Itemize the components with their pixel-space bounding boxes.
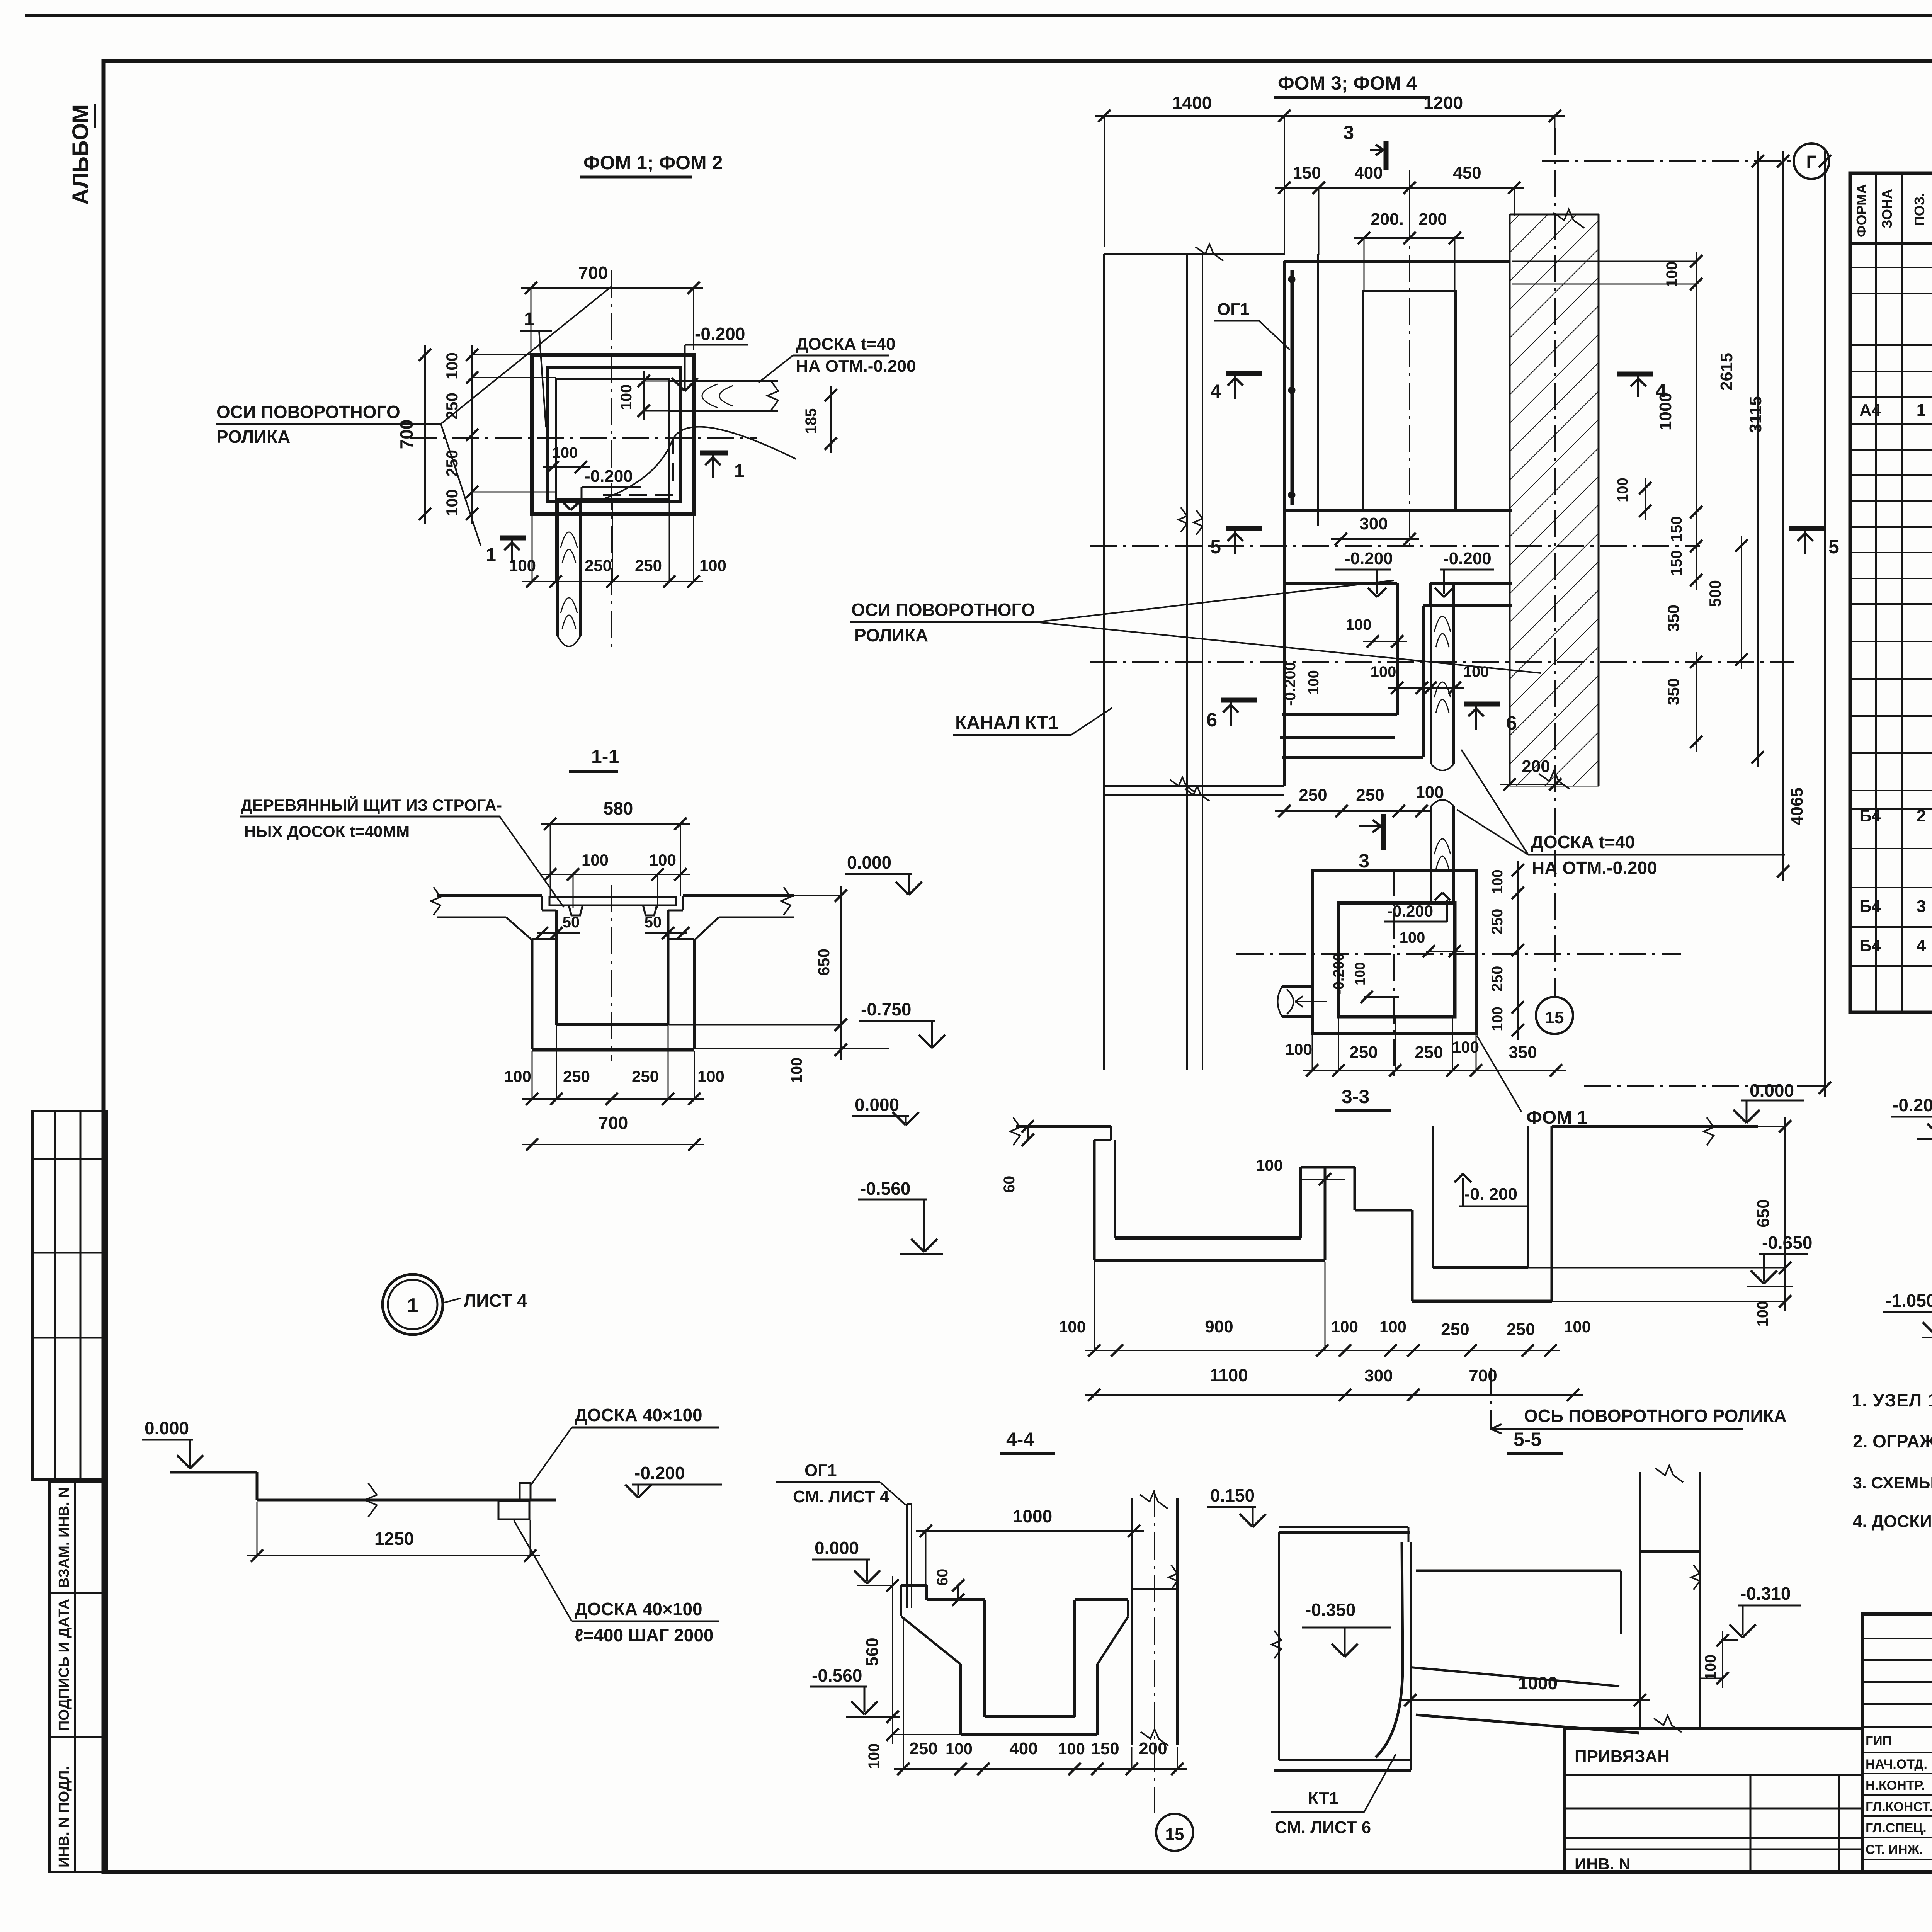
- svg-text:100: 100: [1490, 869, 1506, 894]
- svg-text:3: 3: [1359, 850, 1369, 872]
- svg-text:ПРИВЯЗАН: ПРИВЯЗАН: [1575, 1747, 1670, 1766]
- plan vertical plank upper: [1430, 583, 1432, 764]
- svg-text:ДОСКА 40×100: ДОСКА 40×100: [575, 1405, 702, 1425]
- svg-text:СТ. ИНЖ.: СТ. ИНЖ.: [1866, 1842, 1923, 1857]
- dim 2615: [1757, 151, 1759, 767]
- svg-text:ФОМ 1; ФОМ 2: ФОМ 1; ФОМ 2: [583, 152, 723, 173]
- dims 150 150 right: [1696, 502, 1697, 590]
- svg-text:2. ОГРАЖДЕНИЕ ОГ1 УЧТЕНО В: 2. ОГРАЖДЕНИЕ ОГ1 УЧТЕНО В СПЕЦИФИКАЦИИ …: [1853, 1431, 1932, 1451]
- svg-text:1000: 1000: [1518, 1673, 1558, 1693]
- svg-text:5-5: 5-5: [1514, 1429, 1541, 1450]
- svg-text:-0.560: -0.560: [812, 1665, 862, 1685]
- dims 350 350 right: [1696, 652, 1697, 752]
- svg-text:1250: 1250: [374, 1529, 414, 1549]
- svg-text:I: I: [68, 117, 93, 124]
- svg-text:100: 100: [443, 489, 461, 516]
- s55 tub: [1279, 1526, 1408, 1528]
- svg-text:50: 50: [645, 914, 662, 931]
- s11 dims 100 100: [541, 874, 690, 875]
- svg-text:ДЕРЕВЯННЫЙ ЩИТ ИЗ СТРОГА-: ДЕРЕВЯННЫЙ ЩИТ ИЗ СТРОГА-: [241, 796, 502, 814]
- svg-text:100: 100: [1285, 1040, 1312, 1058]
- channel break lines lower: [1104, 785, 1284, 787]
- svg-text:ФОРМА: ФОРМА: [1854, 184, 1869, 237]
- s44 dim 100 left: [892, 1707, 893, 1744]
- plan shield dashed outline: [672, 437, 674, 484]
- s11 bottom dims: [522, 1098, 704, 1100]
- svg-text:4: 4: [1917, 936, 1926, 955]
- section mark 1 right: [700, 451, 728, 456]
- plan step pockets: [1396, 583, 1399, 715]
- svg-text:300: 300: [1359, 514, 1388, 533]
- s11 shield strip: [549, 897, 676, 905]
- plan outer square: [532, 355, 694, 514]
- svg-text:250: 250: [563, 1067, 590, 1085]
- section marks 5: [1226, 526, 1262, 531]
- axis vertical plan: [1409, 170, 1410, 549]
- s11 dim 100 right: [840, 1015, 842, 1060]
- svg-text:100: 100: [1352, 962, 1368, 985]
- dim 300: [1331, 538, 1419, 540]
- svg-text:ГИП: ГИП: [1866, 1734, 1892, 1748]
- svg-text:100: 100: [866, 1743, 883, 1769]
- svg-text:1000: 1000: [1656, 393, 1675, 430]
- s11 dim 650 right: [840, 886, 842, 1034]
- og1 fence: [1291, 270, 1294, 505]
- line 150 inner: [1317, 254, 1319, 526]
- s33 left trench outer: [1093, 1140, 1096, 1260]
- svg-text:15: 15: [1165, 1825, 1184, 1844]
- axes horizontal mid: [1090, 545, 1700, 547]
- fom1 right dims: [1517, 861, 1519, 1040]
- svg-text:100: 100: [582, 851, 609, 869]
- svg-text:200.: 200.: [1371, 210, 1404, 229]
- svg-text:-0. 200: -0. 200: [1464, 1185, 1517, 1204]
- svg-text:150: 150: [1668, 516, 1685, 542]
- svg-text:100: 100: [618, 384, 635, 410]
- dims 250 250 100 lower: [1275, 810, 1431, 812]
- svg-text:1100: 1100: [1209, 1365, 1248, 1385]
- svg-text:150: 150: [1668, 550, 1685, 576]
- svg-text:СМ. ЛИСТ 4: СМ. ЛИСТ 4: [793, 1487, 889, 1506]
- svg-text:450: 450: [1453, 163, 1481, 182]
- svg-text:100: 100: [1058, 1740, 1085, 1758]
- svg-text:250: 250: [632, 1067, 659, 1085]
- svg-text:250: 250: [1441, 1320, 1469, 1339]
- s44 profile: [901, 1584, 927, 1587]
- dim 185: [830, 386, 832, 453]
- svg-text:250: 250: [635, 556, 662, 575]
- detail boards: [520, 1483, 531, 1500]
- svg-text:0.000: 0.000: [1750, 1080, 1794, 1100]
- svg-text:РОЛИКА: РОЛИКА: [854, 625, 928, 645]
- dim 700 top: [521, 287, 703, 289]
- detail dim 1250: [247, 1555, 540, 1556]
- svg-text:60: 60: [1001, 1176, 1018, 1193]
- dim 1000 right: [1696, 274, 1697, 522]
- svg-text:1: 1: [407, 1294, 418, 1317]
- svg-text:1: 1: [486, 545, 496, 565]
- svg-text:200: 200: [1139, 1739, 1167, 1758]
- svg-text:250: 250: [1507, 1320, 1535, 1339]
- svg-text:100: 100: [1306, 670, 1322, 694]
- svg-text:650: 650: [815, 949, 833, 976]
- svg-text:-0.200: -0.200: [1893, 1095, 1932, 1115]
- s11 dim 580: [541, 823, 690, 825]
- svg-text:-0.650: -0.650: [1762, 1233, 1812, 1253]
- svg-text:Н.КОНТР.: Н.КОНТР.: [1866, 1778, 1925, 1793]
- section marks 4: [1226, 371, 1262, 376]
- svg-text:1: 1: [734, 461, 745, 481]
- svg-text:Б4: Б4: [1859, 806, 1881, 825]
- dims left column: [471, 345, 473, 524]
- svg-text:50: 50: [563, 914, 580, 931]
- svg-text:-0.310: -0.310: [1740, 1583, 1791, 1604]
- svg-text:1: 1: [1917, 401, 1926, 420]
- svg-text:4-4: 4-4: [1006, 1429, 1034, 1450]
- svg-text:350: 350: [1509, 1043, 1537, 1062]
- plan axes: [410, 437, 757, 439]
- svg-text:3115: 3115: [1746, 396, 1765, 433]
- svg-text:2: 2: [1917, 806, 1926, 825]
- svg-text:185: 185: [803, 408, 820, 434]
- mid dims 100: [1363, 641, 1407, 642]
- svg-text:1400: 1400: [1172, 93, 1212, 113]
- svg-text:250: 250: [1349, 1043, 1378, 1062]
- dim 100 inside plan bottom: [543, 466, 590, 468]
- s44 wall right: [1131, 1498, 1133, 1745]
- dim 200 wall: [1500, 784, 1565, 785]
- svg-text:100: 100: [443, 352, 461, 379]
- svg-text:300: 300: [1364, 1366, 1393, 1385]
- svg-text:2615: 2615: [1717, 353, 1736, 391]
- svg-text:100: 100: [1256, 1156, 1283, 1174]
- svg-text:3: 3: [1343, 122, 1354, 143]
- svg-text:ОСЬ ПОВОРОТНОГО РОЛИКА: ОСЬ ПОВОРОТНОГО РОЛИКА: [1524, 1406, 1787, 1426]
- svg-text:100: 100: [699, 556, 726, 575]
- svg-text:ГЛ.КОНСТ.: ГЛ.КОНСТ.: [1866, 1799, 1932, 1814]
- svg-text:100: 100: [1059, 1318, 1086, 1336]
- svg-text:100: 100: [1452, 1038, 1479, 1056]
- plan right plank: [669, 380, 778, 382]
- s11 dim 700 bottom: [522, 1144, 704, 1145]
- dim 100 pit bottom right: [1645, 478, 1646, 520]
- svg-text:6: 6: [1506, 712, 1517, 734]
- s33 slab top: [1016, 1125, 1111, 1128]
- s11 trench walls: [555, 910, 558, 1025]
- svg-text:-0.750: -0.750: [861, 999, 911, 1019]
- svg-text:ДОСКА t=40: ДОСКА t=40: [1531, 832, 1635, 852]
- s55 wedge: [1416, 1570, 1621, 1572]
- svg-text:350: 350: [1664, 605, 1682, 632]
- spec table grid: [1850, 173, 1932, 1012]
- svg-text:ФОМ 3; ФОМ 4: ФОМ 3; ФОМ 4: [1278, 72, 1417, 94]
- svg-text:250: 250: [585, 556, 612, 575]
- svg-text:-0.200: -0.200: [1387, 902, 1433, 920]
- s55 dim 1000: [1401, 1699, 1650, 1701]
- detail profile: [170, 1471, 257, 1474]
- svg-text:150: 150: [1091, 1739, 1119, 1758]
- svg-text:А4: А4: [1859, 401, 1881, 420]
- svg-text:КАНАЛ КТ1: КАНАЛ КТ1: [955, 713, 1058, 733]
- svg-text:100: 100: [1702, 1655, 1719, 1680]
- wall hatched: [1510, 214, 1599, 786]
- sheet top edge line: [25, 14, 1932, 17]
- s11 axis: [611, 885, 612, 1061]
- s33 dim 650 right: [1784, 1117, 1786, 1277]
- svg-text:РОЛИКА: РОЛИКА: [216, 427, 290, 447]
- svg-text:100: 100: [788, 1058, 805, 1083]
- svg-text:-0.200: -0.200: [634, 1463, 685, 1483]
- svg-text:Г: Г: [1806, 152, 1816, 173]
- svg-text:1: 1: [524, 309, 534, 330]
- fom1 axes: [1236, 953, 1681, 955]
- svg-text:ОСИ ПОВОРОТНОГО: ОСИ ПОВОРОТНОГО: [851, 600, 1035, 620]
- s44 dim 560 left: [892, 1576, 893, 1726]
- section mark 1 bottom: [500, 536, 526, 541]
- dim 4065: [1824, 151, 1826, 1097]
- channel top line: [1104, 253, 1285, 255]
- s33 bottom dims row1: [1085, 1350, 1560, 1351]
- privyazan table: [1564, 1728, 1862, 1872]
- svg-text:ВЗАМ. ИНВ. N: ВЗАМ. ИНВ. N: [56, 1487, 72, 1588]
- axis dash lower right: [1584, 1085, 1828, 1087]
- svg-text:НА ОТМ.-0.200: НА ОТМ.-0.200: [796, 357, 916, 376]
- svg-text:0.000: 0.000: [855, 1095, 899, 1115]
- svg-text:700: 700: [599, 1113, 628, 1133]
- dim 200 200: [1354, 237, 1464, 239]
- signature table: [1862, 1614, 1932, 1872]
- svg-text:5: 5: [1828, 536, 1839, 558]
- svg-text:1200: 1200: [1423, 93, 1463, 113]
- plan shield leader curve: [603, 427, 796, 499]
- svg-text:СМ. ЛИСТ 6: СМ. ЛИСТ 6: [1275, 1818, 1371, 1837]
- s44 bottom dims: [894, 1768, 1187, 1770]
- svg-text:-0.200: -0.200: [585, 467, 633, 486]
- svg-text:100: 100: [697, 1067, 724, 1085]
- svg-text:0.000: 0.000: [847, 852, 891, 872]
- s44 circle 15: [1156, 1814, 1193, 1851]
- svg-text:0.000: 0.000: [145, 1418, 189, 1438]
- svg-text:ДОСКА 40×100: ДОСКА 40×100: [575, 1599, 702, 1619]
- svg-text:400: 400: [1009, 1739, 1037, 1758]
- section mark 3 bottom: [1381, 814, 1386, 850]
- svg-text:700: 700: [578, 263, 608, 283]
- svg-text:Б4: Б4: [1859, 897, 1881, 916]
- svg-text:3: 3: [1917, 897, 1926, 916]
- s11 side steps: [541, 896, 543, 910]
- svg-text:ЛИСТ 4: ЛИСТ 4: [464, 1291, 527, 1311]
- svg-text:ГЛ.СПЕЦ.: ГЛ.СПЕЦ.: [1866, 1821, 1927, 1835]
- circle 15 plan: [1536, 997, 1573, 1034]
- svg-text:250: 250: [1415, 1043, 1443, 1062]
- dim 1400 1200 top: [1095, 115, 1565, 117]
- svg-text:100: 100: [649, 851, 676, 869]
- svg-text:580: 580: [604, 798, 633, 818]
- plan pit square: [556, 379, 669, 499]
- fom1 bottom dims: [1303, 1070, 1566, 1071]
- s33 left trench inner: [1114, 1140, 1116, 1238]
- svg-text:-0.560: -0.560: [860, 1179, 910, 1199]
- svg-text:1000: 1000: [1013, 1506, 1052, 1526]
- s11 slab top: [437, 894, 542, 897]
- svg-text:15: 15: [1545, 1008, 1564, 1027]
- svg-text:3-3: 3-3: [1342, 1086, 1369, 1107]
- svg-text:1-1: 1-1: [591, 746, 619, 767]
- svg-text:3. СХЕМЫ РАСПОЛОЖЕНИЯ КОРМУ: 3. СХЕМЫ РАСПОЛОЖЕНИЯ КОРМУШЕК, КАНАЛОВ …: [1853, 1474, 1932, 1492]
- g axis circle: [1794, 143, 1829, 179]
- svg-text:250: 250: [1299, 786, 1327, 804]
- node circle 1 list 4: [383, 1274, 443, 1335]
- svg-text:250: 250: [909, 1739, 937, 1758]
- svg-text:-0.200: -0.200: [1345, 549, 1393, 568]
- svg-text:ОГ1: ОГ1: [804, 1461, 837, 1480]
- svg-text:ДОСКА t=40: ДОСКА t=40: [796, 335, 896, 354]
- svg-text:4. ДОСКИ t=40, ПОКАЗАННЫЕ В: 4. ДОСКИ t=40, ПОКАЗАННЫЕ В УЗЛЕ 1 УЧТЕН…: [1853, 1512, 1932, 1531]
- svg-text:-0.200: -0.200: [1282, 662, 1299, 706]
- svg-text:-0.200: -0.200: [1331, 953, 1347, 995]
- svg-text:-0.200: -0.200: [1443, 549, 1492, 568]
- s11 outer profile: [437, 917, 506, 918]
- left margin upper table: [32, 1111, 107, 1480]
- svg-text:560: 560: [863, 1638, 882, 1666]
- dims bottom row: [522, 581, 703, 582]
- s44 fence: [906, 1504, 908, 1608]
- svg-text:НА ОТМ.-0.200: НА ОТМ.-0.200: [1532, 858, 1657, 878]
- dim 700 left: [424, 345, 426, 524]
- svg-text:ИНВ. N ПОДЛ.: ИНВ. N ПОДЛ.: [56, 1766, 72, 1867]
- spec table row lines left: [1850, 267, 1932, 268]
- svg-text:100: 100: [1379, 1318, 1406, 1336]
- svg-text:ИНВ. N: ИНВ. N: [1575, 1855, 1631, 1873]
- svg-text:200: 200: [1418, 210, 1447, 229]
- channel vertical lines: [1103, 254, 1105, 1070]
- svg-text:5: 5: [1210, 536, 1221, 558]
- svg-text:100: 100: [946, 1740, 973, 1758]
- svg-text:100: 100: [1400, 929, 1425, 946]
- dim 150 400 450: [1275, 187, 1524, 189]
- svg-text:250: 250: [1356, 786, 1384, 804]
- svg-text:500: 500: [1706, 580, 1724, 607]
- s33 left ledge: [1110, 1126, 1112, 1140]
- svg-text:0.000: 0.000: [815, 1538, 859, 1558]
- plan middle square: [548, 368, 680, 502]
- svg-text:-0.200: -0.200: [695, 324, 745, 344]
- dim 500 right: [1741, 536, 1742, 669]
- dim 100 plank right: [643, 371, 645, 420]
- svg-text:250: 250: [1489, 966, 1506, 992]
- svg-text:900: 900: [1205, 1317, 1233, 1336]
- svg-text:100: 100: [1346, 616, 1372, 633]
- svg-text:-0.350: -0.350: [1305, 1600, 1355, 1620]
- plan fom34 outer: [1284, 260, 1510, 263]
- svg-text:150: 150: [1293, 163, 1321, 182]
- s33 middle steps: [1301, 1166, 1355, 1169]
- svg-text:400: 400: [1354, 163, 1383, 182]
- svg-text:ОГ1: ОГ1: [1217, 300, 1250, 319]
- left margin lower table: [49, 1482, 107, 1872]
- svg-text:Б4: Б4: [1859, 936, 1881, 955]
- svg-text:1. УЗЕЛ 1 ЗАМАРКИРОВАН НА: 1. УЗЕЛ 1 ЗАМАРКИРОВАН НА ЛИСТЕ 4.: [1852, 1390, 1932, 1410]
- s33 os label: [1490, 1368, 1492, 1430]
- dim 3115: [1782, 151, 1784, 881]
- svg-text:НАЧ.ОТД.: НАЧ.ОТД.: [1866, 1757, 1927, 1772]
- svg-text:100: 100: [504, 1067, 531, 1085]
- svg-text:250: 250: [443, 450, 461, 477]
- s55 wall: [1639, 1472, 1641, 1728]
- s33 dim 100 right: [1784, 1258, 1786, 1311]
- svg-text:100: 100: [552, 444, 578, 461]
- dim 100 right top: [1696, 252, 1697, 294]
- svg-text:100: 100: [1754, 1301, 1771, 1327]
- section marks 6: [1221, 698, 1257, 703]
- svg-text:-1.050: -1.050: [1886, 1291, 1932, 1311]
- svg-text:0.150: 0.150: [1210, 1485, 1255, 1505]
- svg-text:350: 350: [1664, 678, 1682, 705]
- svg-text:650: 650: [1754, 1199, 1773, 1227]
- s44 dim 1000: [916, 1530, 1144, 1532]
- svg-text:6: 6: [1206, 709, 1217, 731]
- svg-text:КТ1: КТ1: [1308, 1789, 1338, 1808]
- plan fom34 pit: [1363, 291, 1456, 511]
- svg-text:ПОДПИСЬ И ДАТА: ПОДПИСЬ И ДАТА: [56, 1599, 72, 1731]
- svg-text:100: 100: [1490, 1007, 1506, 1031]
- svg-text:ОСИ ПОВОРОТНОГО: ОСИ ПОВОРОТНОГО: [216, 402, 400, 422]
- svg-text:ЗОНА: ЗОНА: [1879, 189, 1895, 228]
- svg-text:ПОЗ.: ПОЗ.: [1912, 193, 1927, 226]
- svg-text:4065: 4065: [1787, 787, 1806, 825]
- svg-text:700: 700: [1469, 1366, 1497, 1385]
- svg-text:60: 60: [934, 1569, 951, 1586]
- fom1 left plank stub: [1282, 985, 1312, 988]
- svg-text:100: 100: [1415, 783, 1444, 802]
- plan bottom plank: [556, 499, 559, 636]
- mid dims 100 100: [1388, 687, 1464, 689]
- plan vertical plank lower: [1430, 806, 1432, 903]
- svg-text:100: 100: [1663, 262, 1680, 287]
- svg-text:100: 100: [1615, 478, 1631, 502]
- svg-text:100: 100: [1371, 663, 1396, 680]
- svg-text:200: 200: [1522, 757, 1550, 776]
- svg-text:250: 250: [1489, 909, 1506, 935]
- svg-text:4: 4: [1210, 381, 1221, 402]
- s33 right trench: [1411, 1210, 1414, 1301]
- svg-text:ℓ=400 ШАГ 2000: ℓ=400 ШАГ 2000: [575, 1625, 714, 1645]
- svg-text:НЫХ ДОСОК t=40ММ: НЫХ ДОСОК t=40ММ: [244, 822, 410, 840]
- svg-text:100: 100: [1564, 1318, 1591, 1336]
- svg-text:100: 100: [1331, 1318, 1358, 1336]
- s33 bottom dims row2: [1085, 1394, 1583, 1396]
- FOm1 square in plan: [1312, 870, 1476, 1034]
- s55 dim 100: [1722, 1631, 1723, 1688]
